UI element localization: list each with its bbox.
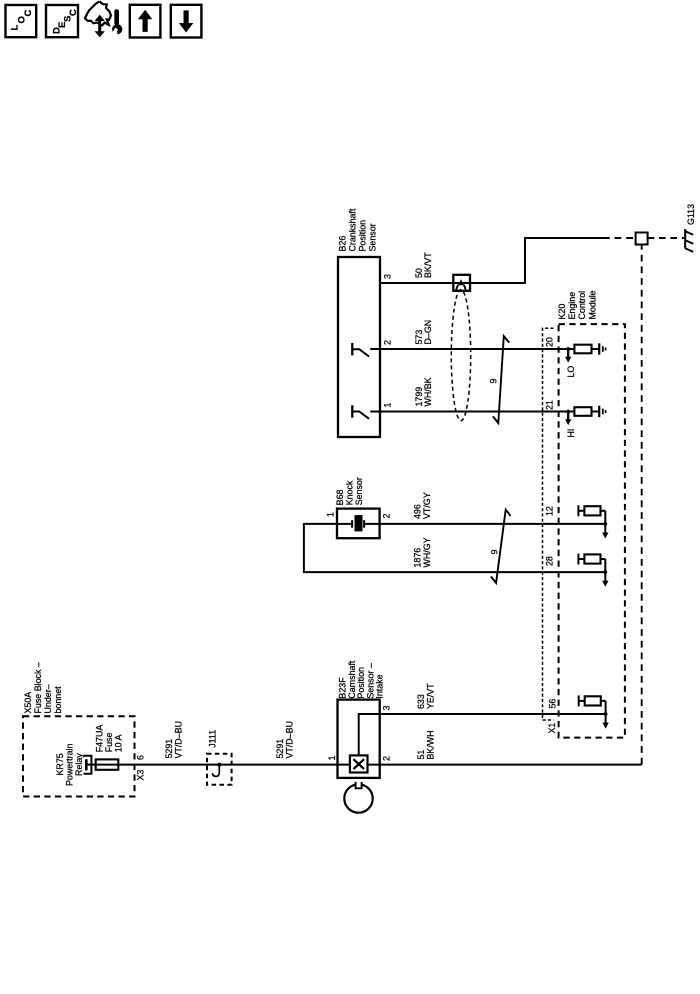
splice J111 symbol (217, 763, 221, 767)
B26 coil element pin 1 (351, 405, 353, 417)
B23F sensor element box with X (350, 755, 368, 772)
svg-text:2: 2 (382, 756, 392, 761)
wire 51 BK/WH (338, 764, 642, 766)
ECM pin 56 internal circuit (578, 695, 580, 706)
svg-text:Intake: Intake (374, 674, 384, 698)
B26 coil element pin 2 (351, 343, 353, 355)
shield ellipse (451, 290, 470, 421)
toolbar button up-arrow (130, 5, 161, 38)
splice J111 dashed box (207, 754, 232, 785)
svg-text:2: 2 (383, 340, 393, 345)
B68 piezo element (337, 523, 352, 525)
svg-text:Crankshaft: Crankshaft (348, 208, 358, 251)
relay KR75 contact (85, 759, 88, 770)
svg-text:X50A: X50A (23, 692, 33, 714)
svg-text:J111: J111 (208, 730, 218, 748)
component B23F Camshaft Position Sensor box (338, 700, 380, 778)
wire 1876 WH/GY (304, 523, 338, 525)
svg-text:VT/D–BU: VT/D–BU (284, 721, 294, 758)
svg-text:VT/GY: VT/GY (422, 492, 432, 519)
ECM pin 20 internal resistor to ground (568, 348, 574, 350)
svg-text:Engine: Engine (567, 292, 577, 320)
dashed ground wire to junction (641, 245, 643, 765)
shield drain square (453, 275, 470, 291)
ground G113 symbol (684, 229, 686, 248)
module K20 Engine Control Module dashed box (559, 324, 625, 737)
svg-text:28: 28 (544, 556, 554, 566)
wire 5291 VT/D-BU (118, 764, 337, 766)
svg-text:VT/D–BU: VT/D–BU (173, 721, 183, 758)
svg-text:Under–: Under– (43, 684, 53, 713)
component B26 Crankshaft Position Sensor box (338, 257, 380, 437)
svg-text:Module: Module (587, 290, 597, 319)
svg-text:C: C (68, 9, 79, 16)
svg-text:F47UA: F47UA (95, 725, 105, 753)
twisted pair marker 9 upper (493, 336, 509, 423)
svg-text:L: L (10, 25, 21, 31)
junction square S110 (636, 233, 648, 245)
wire 50 from B26 pin 3 (380, 282, 525, 284)
svg-text:Powertrain: Powertrain (65, 744, 75, 786)
wire 633 YE/VT (380, 713, 606, 715)
svg-text:C: C (23, 10, 34, 17)
icon vehicle-data up/down with wrench (85, 2, 111, 26)
svg-text:WH/GY: WH/GY (422, 537, 432, 567)
wire 573 D-GN (380, 348, 568, 350)
svg-text:X1: X1 (547, 723, 557, 734)
svg-text:9: 9 (489, 379, 499, 384)
dashed wire junction to G113 (648, 237, 684, 239)
svg-text:Sensor: Sensor (354, 477, 364, 505)
ECM pin 21 internal resistor to ground (568, 411, 574, 413)
svg-text:LO: LO (566, 366, 576, 378)
svg-text:Control: Control (577, 291, 587, 320)
svg-text:Position: Position (358, 220, 368, 252)
svg-text:HI: HI (566, 429, 576, 438)
svg-text:BK/VT: BK/VT (423, 252, 433, 278)
connector X1 dashed bracket (543, 328, 554, 720)
svg-text:X3: X3 (136, 770, 146, 781)
svg-text:WH/BK: WH/BK (423, 377, 433, 406)
svg-text:B26: B26 (338, 236, 348, 252)
fuse F47UA (86, 764, 95, 766)
svg-text:2: 2 (382, 514, 392, 519)
svg-text:12: 12 (544, 506, 554, 516)
svg-text:56: 56 (548, 699, 558, 709)
toolbar button LOC (6, 5, 37, 37)
B23F reluctor ring circle (344, 784, 372, 812)
svg-text:BK/WH: BK/WH (425, 730, 435, 759)
svg-text:K20: K20 (557, 304, 567, 320)
svg-text:1: 1 (383, 403, 393, 408)
component X50A Fuse Block dashed box (23, 716, 135, 796)
ECM pin 28 internal circuit (577, 554, 579, 565)
svg-text:YE/VT: YE/VT (425, 683, 435, 709)
svg-text:1: 1 (325, 512, 335, 517)
svg-text:10 A: 10 A (113, 734, 123, 752)
component B68 Knock Sensor box (337, 509, 380, 539)
svg-text:21: 21 (544, 400, 554, 410)
svg-text:G113: G113 (686, 204, 696, 225)
svg-text:9: 9 (490, 550, 500, 555)
wire 496 VT/GY (380, 523, 606, 525)
dashed wire to ground junction (603, 237, 636, 239)
toolbar button DESC (46, 5, 78, 37)
svg-text:3: 3 (383, 274, 393, 279)
svg-text:6: 6 (136, 755, 146, 760)
svg-text:KR75: KR75 (55, 753, 65, 775)
svg-text:Sensor: Sensor (368, 223, 378, 251)
toolbar button down-arrow (171, 5, 202, 38)
svg-text:20: 20 (544, 337, 554, 347)
wire 1799 WH/BK (380, 411, 568, 413)
ECM pin 12 internal circuit (577, 505, 579, 516)
svg-text:3: 3 (382, 706, 392, 711)
B23F internal wire pin 3 (359, 713, 380, 715)
twisted pair marker 9 lower (491, 510, 511, 583)
svg-text:bonnet: bonnet (53, 686, 63, 714)
svg-text:Fuse Block –: Fuse Block – (33, 662, 43, 713)
svg-text:D–GN: D–GN (423, 320, 433, 345)
svg-text:1: 1 (327, 756, 337, 761)
svg-text:Relay: Relay (74, 753, 84, 776)
